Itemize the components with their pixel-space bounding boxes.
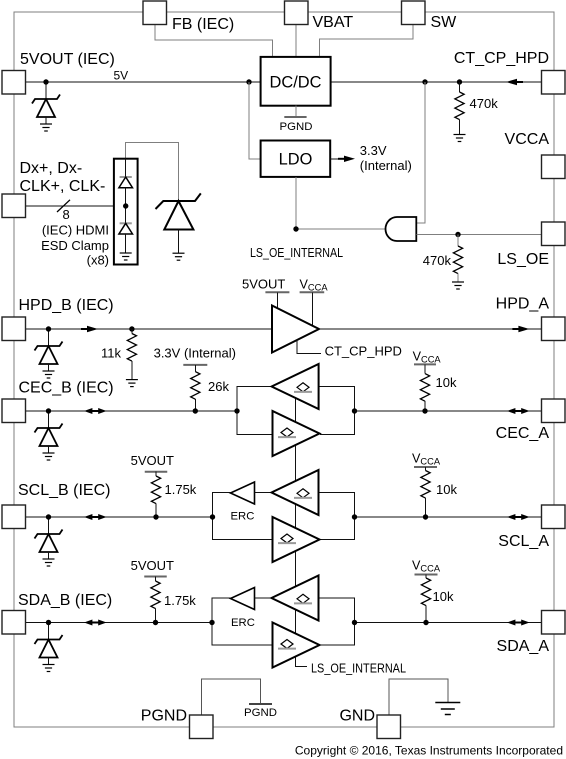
- node SDA_A 10k junction: [423, 620, 428, 625]
- svg-text:PGND: PGND: [244, 707, 277, 719]
- pin Dx CLK: [2, 194, 26, 218]
- node SCL_B 1.75k junction: [153, 514, 158, 519]
- buffer U3 CEC B-side (left): [272, 364, 319, 409]
- wire CT_CP_HPD to AND gate upper input: [416, 82, 425, 223]
- hysteresis mark U4: [281, 428, 293, 437]
- box ESD clamp: [114, 159, 138, 265]
- svg-text:SDA_B (IEC): SDA_B (IEC): [18, 592, 112, 609]
- arrows CEC_A bidirectional: [514, 410, 523, 412]
- pin CT_CP_HPD: [542, 71, 566, 95]
- resistor R7 10k: [421, 471, 430, 499]
- zener D8 on SDA_B: [48, 623, 50, 640]
- hysteresis mark U7: [281, 534, 293, 543]
- wire SDA_A: [355, 622, 543, 624]
- svg-text:ERC: ERC: [231, 617, 255, 629]
- resistor R8 1.75k: [151, 581, 160, 609]
- block DC/DC converter: [261, 57, 331, 106]
- node SCL_B zener junction: [46, 514, 51, 519]
- wire HPD_B: [26, 328, 272, 330]
- node Dx clamp junction: [123, 203, 128, 208]
- ground under R2: [452, 281, 464, 283]
- svg-text:26k: 26k: [208, 379, 229, 394]
- svg-text:VCCA: VCCA: [505, 131, 550, 148]
- node CT junction to 470k: [457, 79, 462, 84]
- svg-text:Dx+, Dx-: Dx+, Dx-: [20, 160, 83, 177]
- pin SCL_B: [2, 505, 26, 529]
- node SCL_A 10k junction: [423, 514, 428, 519]
- wire SDA lower buffer output to A line: [321, 623, 355, 646]
- svg-text:3.3V: 3.3V: [360, 143, 387, 158]
- wire SDA upper buffer input from A line: [319, 598, 355, 623]
- wire SDA ERC to upper buffer: [255, 597, 272, 599]
- svg-text:ESD Clamp: ESD Clamp: [41, 238, 109, 253]
- pin SW: [402, 1, 426, 25]
- ground under R3: [126, 379, 138, 381]
- node CT junction to AND gate: [422, 79, 427, 84]
- svg-text:PGND: PGND: [280, 121, 313, 133]
- svg-text:LS_OE_INTERNAL: LS_OE_INTERNAL: [311, 661, 406, 676]
- power PGND bar under DC/DC: [284, 116, 306, 118]
- pin SCL_A: [542, 505, 566, 529]
- wire 5V to LDO input: [249, 82, 261, 159]
- svg-text:CEC_B (IEC): CEC_B (IEC): [19, 380, 114, 397]
- svg-text:10k: 10k: [436, 375, 457, 390]
- zener D6 on CEC_B: [48, 411, 50, 428]
- svg-text:CT_CP_HPD: CT_CP_HPD: [454, 50, 549, 67]
- resistor R2 470k: [457, 235, 459, 247]
- buffer U9 SDA B-side (left): [272, 576, 319, 621]
- wire ESD clamp top to zener: [126, 143, 179, 202]
- node SDA_B buffer junction: [209, 620, 214, 625]
- svg-text:HPD_A: HPD_A: [496, 296, 550, 313]
- resistor R9 10k: [421, 578, 430, 606]
- svg-text:5VOUT (IEC): 5VOUT (IEC): [20, 51, 115, 68]
- power PGND bar bottom: [249, 703, 272, 705]
- svg-text:PGND: PGND: [141, 708, 187, 725]
- wire SCL lower buffer output to A line: [321, 517, 355, 540]
- svg-text:11k: 11k: [101, 346, 121, 361]
- node LS_OE_INTERNAL junction: [293, 226, 298, 231]
- arrows SCL_B bidirectional: [91, 516, 100, 518]
- arrows SCL_A bidirectional: [514, 516, 523, 518]
- svg-text:5VOUT: 5VOUT: [131, 453, 174, 468]
- wire SDA ERC output path: [212, 598, 231, 623]
- resistor R4 26k: [191, 372, 200, 400]
- node SCL_B buffer junction: [210, 514, 215, 519]
- svg-text:HPD_B (IEC): HPD_B (IEC): [19, 297, 114, 314]
- pin PGND: [190, 715, 214, 739]
- buffer U4 CEC A-side (right): [273, 411, 320, 456]
- wire DC/DC output to CT_CP_HPD pin: [331, 81, 542, 83]
- svg-text:(IEC) HDMI: (IEC) HDMI: [42, 223, 109, 238]
- hysteresis mark U9: [297, 594, 309, 603]
- svg-text:CT_CP_HPD: CT_CP_HPD: [325, 343, 402, 358]
- node SCL_A buffer junction: [352, 514, 357, 519]
- arrow into chip on CT_CP_HPD wire: [514, 81, 523, 83]
- wire SCL ERC to upper buffer: [255, 492, 272, 494]
- node CEC_B 26k junction: [193, 408, 198, 413]
- svg-text:DC/DC: DC/DC: [270, 74, 322, 92]
- svg-text:10k: 10k: [436, 482, 457, 497]
- arrow HPD_A direction: [512, 328, 521, 330]
- buffer U2 HPD driver: [272, 306, 319, 353]
- svg-text:VBAT: VBAT: [313, 14, 354, 31]
- svg-text:10k: 10k: [433, 589, 454, 604]
- node CEC_A buffer junction: [352, 408, 357, 413]
- resistor R5 10k: [420, 374, 429, 402]
- pin LS_OE: [542, 222, 566, 246]
- buffer U5 SCL ERC: [231, 482, 255, 504]
- buffer U10 SDA A-side (right): [273, 623, 320, 668]
- svg-text:(x8): (x8): [87, 253, 109, 268]
- wire LS_OE_INTERNAL enable rail: [296, 390, 308, 667]
- ground under zener D4: [173, 252, 185, 254]
- resistor R6 1.75k: [151, 476, 160, 504]
- wire SCL upper buffer input from A line: [319, 493, 355, 518]
- wire SDA_B: [26, 622, 212, 624]
- pin HPD_B: [2, 317, 26, 341]
- buffer U6 SCL B-side (left): [272, 470, 319, 515]
- svg-text:5V: 5V: [114, 69, 129, 83]
- svg-text:LS_OE_INTERNAL: LS_OE_INTERNAL: [250, 245, 343, 260]
- wire VBAT to DC/DC: [295, 24, 297, 57]
- svg-text:LS_OE: LS_OE: [497, 251, 549, 268]
- wire LDO 3.3V output: [330, 158, 347, 160]
- svg-text:Copyright © 2016, Texas Instru: Copyright © 2016, Texas Instruments Inco…: [295, 744, 563, 758]
- pin CEC_B: [2, 399, 26, 423]
- wire CEC_B: [26, 410, 237, 412]
- node 5V junction at DC/DC input: [246, 79, 251, 84]
- wire 5V rail: [26, 81, 261, 83]
- wire SDA lower buffer input path: [212, 623, 273, 646]
- wire GND pin to earth symbol: [389, 679, 448, 715]
- arrows CEC_B bidirectional: [91, 410, 100, 412]
- svg-text:470k: 470k: [423, 253, 452, 268]
- svg-text:(Internal): (Internal): [360, 158, 412, 173]
- gate U1 AND (mirrored): [386, 217, 417, 241]
- pin 5VOUT (IEC): [2, 71, 26, 95]
- pin SDA_B: [2, 611, 26, 635]
- node SDA_A buffer junction: [352, 620, 357, 625]
- bus slash x8: [57, 200, 70, 212]
- svg-text:8: 8: [63, 207, 70, 222]
- svg-text:470k: 470k: [470, 96, 499, 111]
- svg-text:3.3V (Internal): 3.3V (Internal): [154, 346, 236, 361]
- svg-text:SCL_B (IEC): SCL_B (IEC): [18, 482, 110, 499]
- diode D3 lower in clamp: [120, 222, 132, 224]
- node SDA_B 1.75k junction: [153, 620, 158, 625]
- svg-text:GND: GND: [339, 708, 375, 725]
- svg-text:LDO: LDO: [279, 151, 313, 169]
- wire CEC upper buffer input from A line: [319, 387, 355, 435]
- svg-text:CLK+, CLK-: CLK+, CLK-: [20, 178, 106, 195]
- ground earth symbol: [435, 702, 460, 704]
- pin VBAT: [285, 1, 309, 25]
- hysteresis mark U3: [297, 383, 309, 392]
- arrow HPD_B direction: [81, 328, 90, 330]
- buffer U7 SCL A-side (right): [273, 517, 320, 562]
- wire SCL lower buffer input path: [213, 517, 273, 540]
- svg-text:SDA_A: SDA_A: [497, 638, 550, 655]
- node 5V zener junction: [43, 79, 48, 84]
- zener D5 on HPD_B: [48, 329, 50, 346]
- svg-text:SCL_A: SCL_A: [498, 533, 549, 550]
- wire SCL_A: [355, 516, 543, 518]
- svg-text:CEC_A: CEC_A: [496, 425, 550, 442]
- wire CT_CP_HPD enable L: [297, 340, 321, 354]
- wire CEC_A: [355, 410, 543, 412]
- pin GND: [377, 715, 401, 739]
- wire DC/DC PGND stub: [295, 106, 297, 117]
- pin SDA_A: [542, 611, 566, 635]
- resistor R3 11k: [131, 329, 133, 334]
- zener D1 on 5VOUT: [45, 82, 47, 99]
- pin HPD_A: [542, 317, 566, 341]
- pin CEC_A: [542, 399, 566, 423]
- hysteresis mark U10: [281, 640, 293, 649]
- svg-text:SW: SW: [431, 14, 458, 31]
- buffer U8 SDA ERC: [231, 588, 255, 610]
- wire AND gate output to LS_OE_INTERNAL node: [296, 228, 386, 230]
- svg-text:1.75k: 1.75k: [165, 482, 197, 497]
- wire SW to DC/DC: [319, 24, 413, 57]
- node HPD_B 11k junction: [129, 326, 134, 331]
- ground under R1: [454, 134, 466, 136]
- node HPD_B zener junction: [46, 326, 51, 331]
- svg-text:5VOUT: 5VOUT: [242, 277, 285, 292]
- svg-text:1.75k: 1.75k: [164, 593, 196, 608]
- node CEC_B buffer junction: [234, 408, 239, 413]
- wire SCL ERC output path: [213, 493, 231, 518]
- arrow 3.3V internal output: [338, 158, 347, 160]
- svg-text:ERC: ERC: [231, 511, 255, 523]
- node SDA_B zener junction: [46, 620, 51, 625]
- wire Dx bus to ESD clamp: [26, 205, 114, 207]
- diode D2 upper in clamp: [125, 159, 127, 177]
- resistor R1 470k: [459, 82, 461, 92]
- node LS_OE junction to 470k: [455, 232, 460, 237]
- svg-text:5VOUT: 5VOUT: [131, 558, 174, 573]
- pin FB (IEC): [143, 1, 167, 25]
- zener D4 HDMI clamp: [156, 193, 201, 209]
- wire HPD_A output: [319, 328, 542, 330]
- wire AND gate lower input to LS_OE pin: [416, 234, 542, 236]
- wire LDO to LS_OE_INTERNAL node: [295, 177, 297, 229]
- pin VCCA: [542, 155, 566, 179]
- wire SCL_B: [26, 516, 213, 518]
- svg-text:FB (IEC): FB (IEC): [172, 16, 234, 33]
- arrows SDA_B bidirectional: [91, 622, 100, 624]
- node CEC_A 10k junction: [422, 408, 427, 413]
- hysteresis mark U6: [297, 489, 309, 498]
- arrows SDA_A bidirectional: [514, 622, 523, 624]
- wire FB to DC/DC: [155, 24, 272, 57]
- ground in ESD clamp: [120, 252, 132, 254]
- node CEC_B zener junction: [46, 408, 51, 413]
- wire CEC upper buffer output to B line: [237, 387, 273, 435]
- wire PGND pin to PGND symbol: [201, 679, 260, 715]
- zener D7 on SCL_B: [48, 517, 50, 534]
- block LDO: [261, 141, 331, 177]
